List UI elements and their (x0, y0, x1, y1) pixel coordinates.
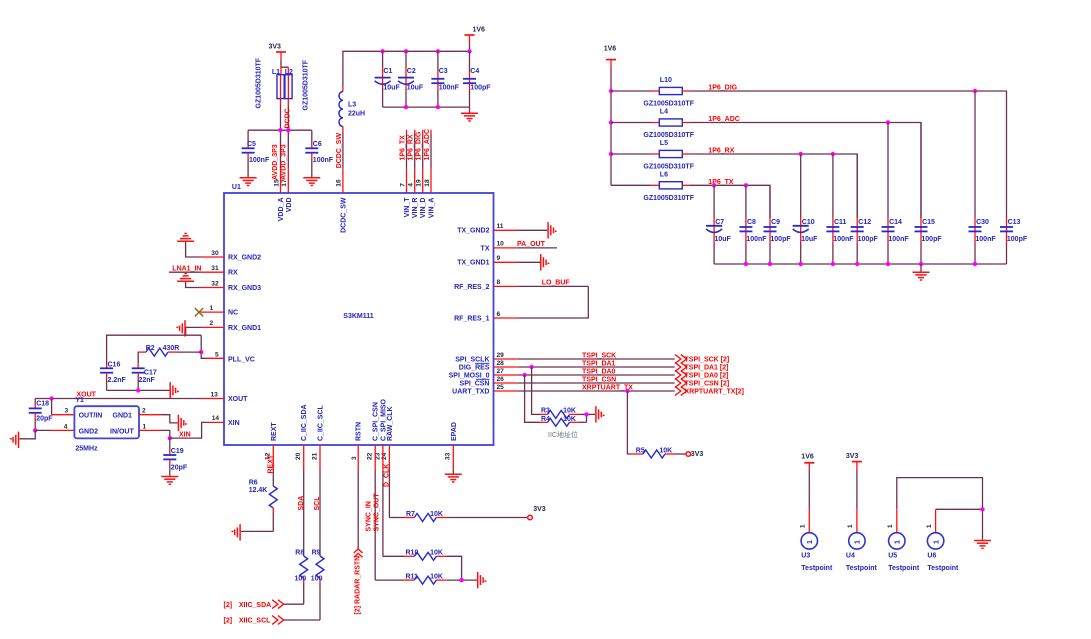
svg-text:PA_OUT: PA_OUT (517, 241, 546, 248)
svg-text:22nF: 22nF (139, 377, 156, 384)
resistor R8 100 (295, 549, 308, 604)
pin name C_SPI_MISO (380, 398, 387, 441)
wire top rail to DCDC_SW (343, 51, 470, 91)
svg-text:RX_GND2: RX_GND2 (228, 254, 261, 261)
resistor R2 430R (139, 345, 201, 356)
svg-text:GZ1005D310TF: GZ1005D310TF (643, 132, 694, 139)
net label DCDC_SW (336, 133, 343, 169)
net label SCL (314, 496, 321, 511)
svg-text:Testpoint: Testpoint (927, 565, 959, 572)
svg-text:[2] RADAR_RSTN: [2] RADAR_RSTN (355, 556, 362, 615)
junction R10/R11 (459, 578, 463, 582)
svg-text:1: 1 (800, 524, 807, 528)
junction bottom C3 (436, 105, 440, 109)
svg-text:C13: C13 (1008, 219, 1021, 226)
wire bottom rail C1-C4 (383, 107, 470, 112)
wire PLL bottom (107, 389, 170, 391)
pin name TX_GND2 (457, 228, 489, 235)
offpage TSPI_DA1 [2] (675, 363, 728, 372)
svg-text:RF_RES_1: RF_RES_1 (454, 315, 490, 322)
svg-text:NC: NC (228, 310, 238, 317)
svg-text:100: 100 (295, 576, 307, 583)
junction row3 C11 (831, 152, 835, 156)
junction row4 C7 (712, 183, 716, 187)
svg-text:10K: 10K (563, 407, 576, 414)
svg-text:4: 4 (408, 183, 415, 187)
junction bus C12 (855, 262, 859, 266)
junction C1 (380, 49, 384, 53)
ground below C6 (303, 178, 320, 186)
svg-text:100nF: 100nF (888, 236, 909, 243)
svg-text:Y1: Y1 (75, 397, 84, 404)
svg-text:5: 5 (215, 351, 219, 358)
wire R2 left to C17 (137, 352, 140, 368)
svg-text:C6: C6 (313, 141, 322, 148)
pin 28 DIG_RES wire (494, 360, 675, 367)
svg-text:SYNC_OUT: SYNC_OUT (373, 493, 380, 532)
svg-text:1V6: 1V6 (604, 45, 617, 52)
svg-text:21: 21 (311, 452, 318, 460)
svg-text:C30: C30 (976, 219, 989, 226)
capacitor C7 10uF (706, 185, 731, 264)
svg-text:U6: U6 (927, 553, 936, 560)
svg-text:C1: C1 (383, 68, 392, 75)
ground right of R11 (478, 572, 487, 588)
svg-text:1: 1 (807, 540, 814, 544)
pin name DCDC_SW (340, 197, 347, 233)
svg-text:TSPI_DA0 [2]: TSPI_DA0 [2] (685, 373, 729, 380)
pin 11 TX_GND2 wire (494, 223, 548, 230)
no-connect X (195, 308, 203, 316)
svg-text:1V6: 1V6 (473, 27, 486, 34)
capacitor C15 100pF (915, 123, 943, 265)
svg-text:LO_BUF: LO_BUF (542, 280, 571, 287)
pin name UART_TXD (452, 388, 489, 395)
svg-text:100pF: 100pF (1007, 236, 1028, 243)
svg-text:Testpoint: Testpoint (888, 565, 920, 572)
ground below EPAD (445, 474, 462, 482)
svg-text:XIN: XIN (228, 420, 240, 427)
junction bus C9 (768, 262, 772, 266)
capacitor C10 10uF (793, 154, 818, 264)
svg-text:U4: U4 (846, 553, 855, 560)
offpage TSPI_SCK [2] (675, 355, 729, 364)
pin 9 TX_GND1 wire (494, 255, 541, 262)
svg-text:EPAD: EPAD (451, 422, 458, 441)
svg-text:GZ1005D310TF: GZ1005D310TF (303, 59, 310, 110)
svg-text:TSPI_SCK [2]: TSPI_SCK [2] (685, 357, 730, 364)
svg-text:U5: U5 (888, 553, 897, 560)
ferrite bead L10 (611, 77, 695, 108)
junction row28 R3 (529, 365, 533, 369)
svg-text:3V3: 3V3 (533, 506, 546, 513)
pin name NC (228, 310, 238, 317)
ground below C19 (161, 477, 178, 485)
pin 25 UART_TXD wire (494, 384, 675, 391)
pin name XIN (228, 420, 240, 427)
net label 1P6_RX (708, 147, 734, 154)
offpage XRPTUART_TX[2] (675, 387, 744, 396)
ground testpoints (974, 541, 991, 549)
svg-text:100nF: 100nF (975, 236, 996, 243)
svg-text:IIC地址位: IIC地址位 (548, 430, 578, 439)
pin name RX_GND3 (228, 285, 261, 292)
offpage XIIC_SCL (224, 616, 284, 625)
resistor R9 100 (311, 549, 324, 620)
wire crystal pin 2 GND1 (139, 408, 178, 423)
svg-text:100nF: 100nF (746, 236, 767, 243)
pin number 24 (381, 452, 388, 460)
svg-text:2: 2 (210, 320, 214, 327)
svg-text:RX: RX (228, 270, 238, 277)
resistor R5 10K (631, 447, 686, 458)
svg-text:SCL: SCL (314, 496, 321, 511)
svg-text:3V3: 3V3 (691, 451, 704, 458)
pin 6 RF_RES_1 wire (494, 311, 518, 318)
svg-text:L2: L2 (285, 69, 293, 76)
net label 1P6_DIG (708, 84, 737, 91)
net label 1P6_ADC (vertical) (424, 129, 431, 161)
svg-text:10K: 10K (430, 550, 443, 557)
junction bus C8 (744, 262, 748, 266)
junction at pin17 column (286, 128, 290, 132)
ground right of R3/R4 (596, 406, 605, 422)
junction row3 C10 (799, 152, 803, 156)
pin name EPAD (451, 422, 458, 441)
svg-text:C5: C5 (247, 141, 256, 148)
svg-text:100nF: 100nF (313, 157, 334, 164)
ferrite bead L4 (611, 109, 695, 140)
junction R2 right (199, 350, 203, 354)
net label XOUT (77, 392, 97, 399)
svg-text:C18: C18 (36, 401, 49, 408)
ferrite bead L5 (611, 140, 695, 171)
capacitor C11 100nF (826, 154, 854, 264)
power 1V6 (top right) (604, 45, 617, 68)
ferrite bead L6 (611, 171, 695, 202)
pin name RX_GND1 (228, 325, 261, 332)
svg-text:13: 13 (211, 391, 219, 398)
svg-text:OUT/IN: OUT/IN (79, 412, 103, 419)
svg-text:D_CLK: D_CLK (384, 464, 391, 487)
svg-text:TSPI_CSN: TSPI_CSN (582, 376, 616, 383)
svg-text:VIN_A: VIN_A (429, 198, 436, 219)
net label TSPI_SCK (582, 352, 616, 359)
wire VIN_A pin 18 (430, 130, 432, 193)
svg-text:XIIC_SCL: XIIC_SCL (239, 618, 271, 625)
pin number 3 (351, 456, 358, 460)
capacitor C19 20pF (163, 438, 188, 476)
offpage RADAR_RSTN (354, 549, 363, 615)
svg-text:PLL_VC: PLL_VC (228, 356, 255, 363)
svg-text:DCDC_SW: DCDC_SW (340, 197, 347, 233)
svg-text:L6: L6 (660, 171, 668, 178)
junction row25 R5 branch (625, 389, 629, 393)
terminal 3V3 at R5 (686, 451, 703, 458)
svg-text:C11: C11 (834, 219, 847, 226)
svg-text:R9: R9 (312, 549, 321, 556)
svg-text:C7: C7 (715, 219, 724, 226)
pin name VDD (286, 198, 293, 213)
capacitor C13 100pF (1000, 218, 1028, 264)
svg-text:LNA1_IN: LNA1_IN (172, 266, 201, 273)
svg-text:29: 29 (497, 352, 505, 359)
svg-text:10K: 10K (430, 511, 443, 518)
svg-text:[2]: [2] (224, 602, 233, 609)
capacitor C3 100nF (431, 51, 459, 107)
junction 1V6 at C4 (467, 49, 471, 53)
svg-text:GZ1005D310TF: GZ1005D310TF (643, 101, 694, 108)
offpage TSPI_DA0 [2] (675, 371, 728, 380)
op-amp U1 S3KM111 body (224, 184, 494, 445)
pin name TX (481, 245, 490, 252)
offpage TSPI_CSN [2] (675, 379, 729, 388)
svg-text:3: 3 (351, 456, 358, 460)
svg-text:L1: L1 (272, 69, 280, 76)
svg-text:1: 1 (895, 540, 902, 544)
svg-text:1: 1 (847, 524, 854, 528)
wire 1V6 trunk (610, 68, 612, 185)
ground above pin 30 (177, 234, 194, 242)
capacitor C2 10uF (398, 51, 424, 107)
pin name RF_RES_2 (454, 284, 490, 291)
ground right pin 9 (541, 254, 550, 270)
ferrite bead L1 (272, 69, 284, 98)
net label REXT (268, 454, 275, 473)
svg-text:7: 7 (399, 183, 406, 187)
svg-text:R10: R10 (406, 550, 419, 557)
net label TSPI_DA0 (582, 368, 616, 375)
svg-text:TSPI_DA1 [2]: TSPI_DA1 [2] (685, 365, 729, 372)
wire PLL right branch (201, 335, 224, 358)
svg-text:15: 15 (273, 179, 280, 187)
power 3V3 testpoint U4 (846, 453, 862, 533)
pin 33 EPAD wire (452, 445, 454, 474)
svg-text:VIN_D: VIN_D (420, 198, 427, 219)
wire 3V3 to L1/L2 tops (281, 60, 288, 76)
junction row1 C30 (973, 89, 977, 93)
svg-text:C4: C4 (470, 68, 479, 75)
svg-text:8: 8 (497, 279, 501, 286)
net label 1P6_TX (vertical) (400, 135, 407, 161)
svg-text:SPI_CSN: SPI_CSN (460, 380, 490, 387)
pin name RSTN (356, 422, 363, 441)
svg-text:[2]: [2] (224, 618, 233, 625)
power 1V6 testpoint U3 (801, 454, 814, 533)
testpoint U5 (887, 524, 920, 572)
pin name RX (228, 270, 238, 277)
svg-text:10K: 10K (430, 573, 443, 580)
svg-text:1: 1 (143, 424, 147, 431)
svg-text:C12: C12 (858, 219, 871, 226)
wire C18 to ground (19, 430, 35, 438)
pin number 22 (367, 452, 374, 460)
pin name RF_RES_1 (454, 315, 490, 322)
net label XIN (179, 431, 191, 438)
net label SDA (298, 496, 305, 511)
net label XRPTUART_TX (582, 384, 633, 391)
svg-text:GND2: GND2 (79, 428, 99, 435)
wire XOUT to crystal pin 3 (52, 399, 75, 415)
wire row25 down to R5 (627, 391, 631, 454)
svg-text:10uF: 10uF (383, 84, 400, 91)
svg-text:27: 27 (497, 368, 505, 375)
svg-text:1: 1 (933, 540, 940, 544)
svg-text:1: 1 (926, 524, 933, 528)
net label 1P6_TX (708, 179, 734, 186)
svg-text:100: 100 (311, 576, 323, 583)
net label AVDD_3P3 (left) (272, 144, 279, 180)
ground left of R6 (231, 524, 240, 540)
pin number 33 (445, 452, 452, 460)
wire VIN_R pin 4 (414, 130, 416, 193)
L1 part number GZ1005D310TF (256, 57, 263, 108)
svg-text:C_SPI_CSN: C_SPI_CSN (373, 402, 380, 441)
svg-text:SPI_MOSI_0: SPI_MOSI_0 (449, 372, 490, 379)
pin 2 RX_GND1 wire (186, 320, 224, 335)
svg-text:16: 16 (336, 179, 343, 187)
svg-text:10uF: 10uF (801, 236, 818, 243)
capacitor C9 100pF (764, 185, 792, 264)
svg-text:C_IIC_SDA: C_IIC_SDA (301, 404, 308, 441)
svg-text:100nF: 100nF (439, 84, 460, 91)
junction trunk row3 (609, 152, 613, 156)
svg-text:19: 19 (416, 179, 423, 187)
svg-text:2: 2 (142, 408, 146, 415)
pin 21 C_IIC_SCL wire (319, 445, 321, 556)
offpage XIIC_SDA (224, 600, 284, 609)
resistor R3 10K (539, 407, 587, 418)
svg-text:25MHz: 25MHz (75, 445, 98, 452)
svg-text:XRPTUART_TX[2]: XRPTUART_TX[2] (685, 389, 745, 396)
capacitor C6 (305, 130, 333, 177)
svg-text:TX_GND2: TX_GND2 (457, 228, 489, 235)
svg-text:100pF: 100pF (470, 84, 491, 91)
svg-text:Testpoint: Testpoint (846, 565, 878, 572)
svg-text:XOUT: XOUT (228, 396, 248, 403)
ground crystal pin 2 (178, 415, 187, 431)
pin name SPI_MOSI_0 (449, 372, 490, 379)
svg-text:9: 9 (497, 255, 501, 262)
pin name C_IIC_SDA (301, 404, 308, 441)
svg-text:1P6_DIG: 1P6_DIG (416, 131, 423, 160)
junction bus C30 (973, 262, 977, 266)
svg-text:C19: C19 (171, 448, 184, 455)
wire XOUT row pin 13 (35, 391, 224, 398)
net label D_CLK (384, 464, 391, 487)
svg-text:Testpoint: Testpoint (801, 565, 833, 572)
svg-text:VDD: VDD (286, 198, 293, 213)
svg-text:RSTN: RSTN (356, 422, 363, 441)
svg-text:4: 4 (64, 424, 68, 431)
svg-text:31: 31 (211, 265, 219, 272)
pin number 19 (416, 179, 423, 187)
junction C2 (404, 49, 408, 53)
junction XOUT pin3 branch (49, 396, 53, 400)
svg-text:C14: C14 (889, 219, 902, 226)
wire row3 1P6_RX (690, 154, 857, 218)
svg-text:RX_GND1: RX_GND1 (228, 325, 261, 332)
pin number 17 (281, 179, 288, 187)
pin name VIN_R (412, 198, 419, 219)
svg-text:R6: R6 (249, 480, 258, 487)
svg-text:IN/OUT: IN/OUT (110, 428, 134, 435)
svg-text:100pF: 100pF (921, 236, 942, 243)
svg-text:1P6_ADC: 1P6_ADC (424, 129, 431, 161)
svg-text:C2: C2 (407, 68, 416, 75)
pin name SPI_SCLK (455, 356, 489, 363)
junction U6 gnd column (980, 507, 984, 511)
pin 24 RAW_CLK wire (388, 445, 390, 518)
net label 1P6_DIG (vertical) (416, 131, 423, 160)
pin 31 RX wire (169, 265, 224, 272)
svg-text:33: 33 (445, 452, 452, 460)
pin number 18 (424, 179, 431, 187)
junction row4 C8 (744, 183, 748, 187)
svg-text:R7: R7 (406, 511, 415, 518)
svg-text:R3: R3 (541, 407, 550, 414)
svg-text:12.4K: 12.4K (249, 487, 268, 494)
ground left of pin 2 (176, 320, 185, 336)
svg-text:32: 32 (211, 280, 219, 287)
svg-text:1: 1 (210, 305, 214, 312)
net label PA_OUT (517, 241, 546, 248)
crystal Y1 25MHz body (74, 397, 139, 453)
resistor R10 10K (383, 550, 462, 581)
svg-text:C10: C10 (802, 219, 815, 226)
svg-text:SYNC_IN: SYNC_IN (366, 501, 373, 531)
net label 1P6_RX (vertical) (408, 134, 415, 160)
svg-text:REXT: REXT (268, 454, 275, 473)
junction row2 C14 (886, 120, 890, 124)
svg-text:100pF: 100pF (770, 236, 791, 243)
svg-text:2.2nF: 2.2nF (108, 377, 127, 384)
pin name RAW_CLK (387, 406, 394, 441)
wire L2 bottom to pin 17 (287, 99, 289, 193)
svg-text:L10: L10 (660, 77, 672, 84)
net label SYNC_IN (366, 501, 373, 531)
pin number 15 (273, 179, 280, 187)
svg-text:1P6_RX: 1P6_RX (708, 147, 734, 154)
pin 26 SPI_CSN wire (494, 376, 675, 383)
terminal 3V3 at R7 (528, 506, 546, 520)
capacitor C1 10uF (375, 51, 401, 107)
svg-text:C16: C16 (108, 361, 121, 368)
capacitor C12 100pF (851, 154, 879, 264)
wire VIN_T pin 7 (406, 130, 408, 193)
wire bottom bus (714, 263, 1006, 265)
junction bottom C2 (404, 105, 408, 109)
wire row28 to R3 (532, 367, 539, 414)
svg-text:REXT: REXT (271, 422, 278, 441)
wire crystal pin 4 (35, 424, 74, 431)
junction trunk row2 (609, 120, 613, 124)
wire row4 1P6_TX (690, 185, 770, 218)
svg-text:10K: 10K (659, 447, 672, 454)
junction C3 (436, 49, 440, 53)
svg-text:RF_RES_2: RF_RES_2 (454, 284, 490, 291)
resistor R4 10K (539, 416, 587, 426)
wire L1 bottom to pin 15 (280, 99, 282, 193)
wire decoupling row C5-C6 (248, 129, 312, 131)
svg-text:R4: R4 (541, 416, 550, 423)
svg-text:XIN: XIN (179, 431, 191, 438)
svg-text:GND1: GND1 (113, 412, 133, 419)
wire RF_RES loop (518, 286, 589, 318)
wire XIIC_SCL row (283, 619, 320, 621)
testpoint U3 (800, 524, 833, 572)
testpoint U4 (846, 524, 878, 572)
